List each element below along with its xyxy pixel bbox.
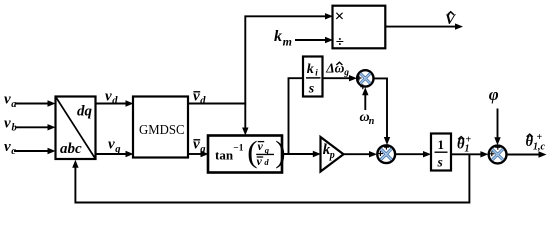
- wire branch up to ki/s: [289, 78, 304, 154]
- svg-text:÷: ÷: [336, 34, 344, 50]
- wire va input: [16, 103, 49, 105]
- svg-text:Δω: Δω: [325, 61, 344, 76]
- wire vbar_d: [188, 103, 245, 105]
- svg-text:s: s: [437, 155, 443, 170]
- wire sum1 output down to sum2: [374, 78, 388, 138]
- svg-text:v: v: [257, 154, 263, 168]
- abc to dq transform block: [56, 97, 96, 160]
- arrow Vhat: [455, 23, 463, 29]
- svg-text:1,c: 1,c: [533, 142, 546, 153]
- svg-text:v: v: [4, 115, 11, 131]
- wire integrator output to sum3: [451, 153, 482, 155]
- svg-text:−1: −1: [233, 143, 243, 153]
- arrow omega_n: [362, 87, 368, 95]
- svg-text:n: n: [369, 116, 375, 127]
- arrow theta output: [539, 151, 547, 157]
- wire phi into sum3: [497, 109, 499, 140]
- wire vb input: [16, 126, 49, 128]
- svg-text:): ): [275, 134, 285, 169]
- svg-text:d: d: [112, 96, 118, 107]
- wire vbar_d branch up to multiplier: [245, 16, 326, 104]
- svg-text:v: v: [105, 89, 112, 105]
- arrow sum1 to sum2 top: [384, 137, 390, 145]
- kp gain triangle: [321, 137, 344, 172]
- arrow vb: [48, 124, 56, 130]
- svg-text:c: c: [11, 146, 16, 157]
- wire km input: [295, 39, 326, 41]
- svg-text:d: d: [200, 96, 206, 107]
- arrow phi into sum3: [494, 137, 500, 145]
- svg-text:1: 1: [438, 137, 445, 152]
- svg-text:b: b: [12, 123, 17, 134]
- integrator 1/s block: [431, 134, 451, 171]
- svg-text:abc: abc: [60, 141, 82, 157]
- svg-text:dq: dq: [77, 104, 93, 120]
- arrow vd: [126, 100, 134, 106]
- svg-text:v: v: [4, 139, 11, 155]
- wire theta output: [507, 154, 540, 156]
- summing junction sum1: [357, 70, 374, 89]
- arctan block: [208, 134, 286, 173]
- arrow ki/s to sum1: [349, 75, 357, 81]
- svg-text:m: m: [283, 34, 292, 48]
- arrow va: [48, 100, 56, 106]
- svg-text:q: q: [115, 144, 120, 155]
- svg-text:v: v: [108, 137, 115, 153]
- summing junction sum2: [377, 145, 395, 164]
- svg-text:φ: φ: [489, 85, 499, 104]
- svg-text:q: q: [200, 144, 205, 155]
- arrow into multiplier top: [325, 13, 333, 19]
- arrow into kp: [313, 151, 321, 157]
- svg-text:k: k: [307, 62, 314, 77]
- svg-text:tan: tan: [215, 148, 234, 163]
- arrow vc: [48, 148, 56, 154]
- wire sum2 to integrator: [395, 153, 424, 155]
- wire tan output to kp: [282, 153, 314, 155]
- arrow into tan top: [242, 128, 248, 136]
- wire vbar_q: [188, 153, 202, 155]
- svg-text:q: q: [265, 145, 270, 155]
- svg-text:p: p: [329, 150, 335, 161]
- arrow vbar_q: [201, 151, 209, 157]
- arrow sum2 to integrator: [423, 151, 431, 157]
- svg-text:d: d: [264, 157, 269, 167]
- svg-text:×: ×: [335, 7, 345, 26]
- svg-text:v: v: [193, 89, 200, 105]
- arrow vq: [126, 151, 134, 157]
- svg-text:GMDSC: GMDSC: [139, 123, 185, 138]
- wire kp output to sum2: [344, 153, 371, 155]
- wire vq: [96, 153, 127, 155]
- svg-text:+: +: [466, 135, 472, 146]
- svg-text:k: k: [274, 28, 282, 45]
- summing junction sum3: [489, 145, 507, 164]
- arrow integrator to sum3: [480, 151, 488, 157]
- wire Vhat output: [385, 26, 456, 28]
- wire vc input: [14, 150, 49, 152]
- svg-text:g: g: [343, 68, 349, 78]
- svg-text:v: v: [193, 137, 200, 153]
- arrow km: [325, 37, 333, 43]
- arrow kp to sum2: [369, 151, 377, 157]
- multiplier-divider block: [333, 6, 386, 51]
- ki/s integral gain block: [303, 57, 323, 97]
- svg-text:v: v: [4, 92, 11, 108]
- wire ki/s output to sum1: [323, 77, 351, 79]
- svg-text:+: +: [537, 132, 543, 143]
- svg-text:a: a: [11, 99, 16, 110]
- svg-text:s: s: [308, 82, 315, 97]
- GMDSC block: [133, 97, 188, 158]
- wire vd: [96, 103, 127, 105]
- wire omega_n into sum1: [364, 94, 366, 111]
- arrowheads: [48, 13, 547, 168]
- wire feedback down-left-up: [75, 154, 469, 202]
- arrow feedback into abc box: [72, 160, 78, 168]
- wire vbar_d branch down to tan block: [244, 104, 246, 130]
